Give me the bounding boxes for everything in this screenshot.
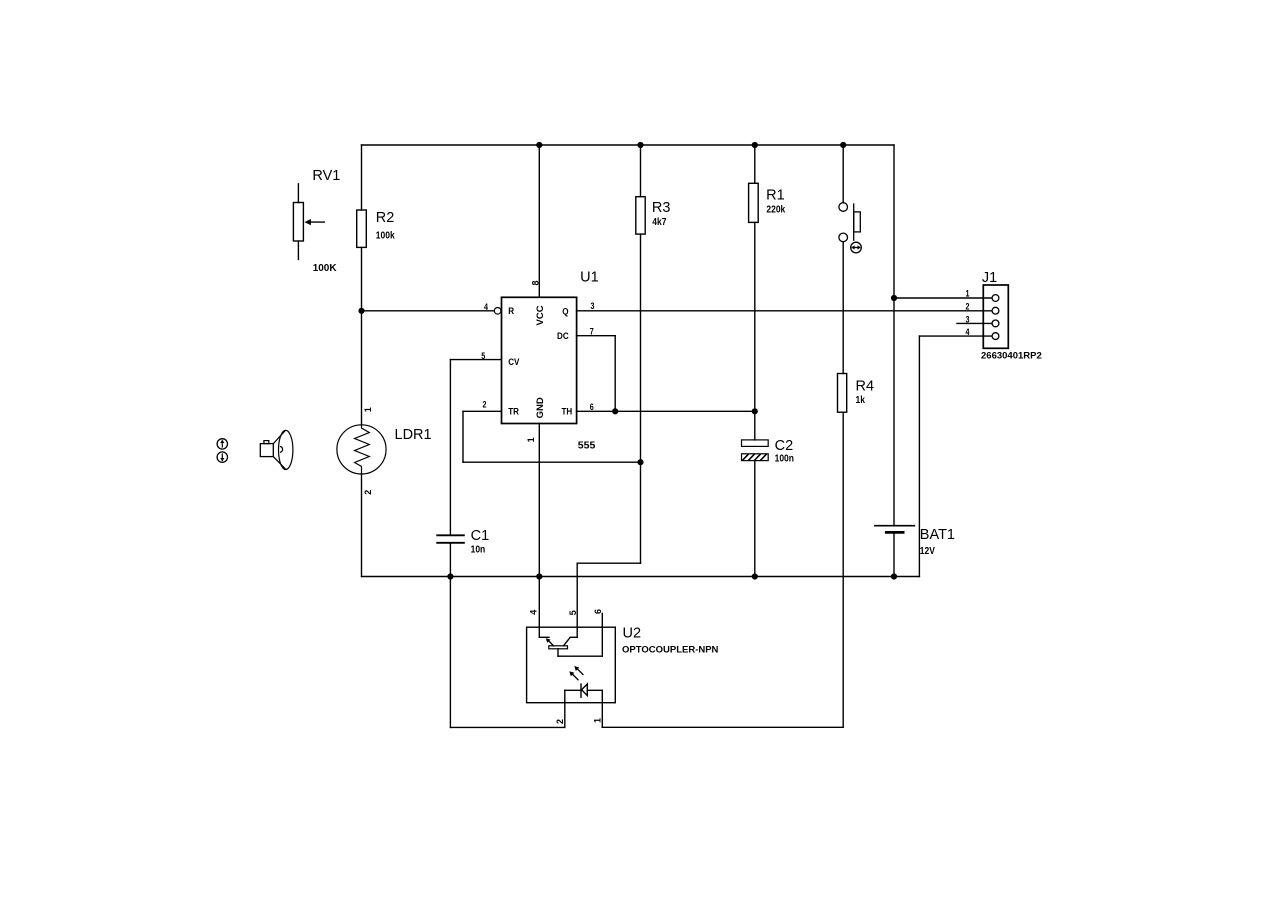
svg-text:LDR1: LDR1	[395, 427, 432, 443]
svg-text:RV1: RV1	[312, 168, 340, 184]
svg-text:4k7: 4k7	[652, 216, 666, 227]
svg-text:1k: 1k	[856, 394, 866, 405]
svg-text:3: 3	[965, 315, 969, 325]
svg-text:2: 2	[482, 400, 486, 410]
svg-text:10n: 10n	[471, 544, 486, 555]
svg-text:555: 555	[578, 439, 596, 451]
svg-text:OPTOCOUPLER-NPN: OPTOCOUPLER-NPN	[622, 645, 719, 656]
svg-text:R: R	[508, 306, 514, 317]
svg-text:4: 4	[529, 610, 539, 615]
svg-text:1: 1	[526, 437, 536, 442]
svg-text:4: 4	[965, 327, 969, 337]
svg-text:220k: 220k	[766, 204, 786, 215]
svg-text:1: 1	[363, 407, 373, 412]
svg-text:R3: R3	[652, 200, 671, 216]
svg-text:6: 6	[593, 609, 603, 614]
svg-text:J1: J1	[982, 270, 997, 286]
svg-text:TR: TR	[508, 406, 519, 417]
svg-text:DC: DC	[557, 330, 569, 341]
svg-text:1: 1	[965, 289, 969, 299]
svg-text:3: 3	[591, 301, 595, 311]
svg-text:BAT1: BAT1	[920, 527, 955, 543]
svg-text:TH: TH	[562, 406, 573, 417]
svg-text:R1: R1	[766, 187, 785, 203]
svg-text:C1: C1	[471, 528, 490, 544]
svg-text:2: 2	[363, 490, 373, 495]
svg-text:100K: 100K	[313, 263, 338, 274]
svg-text:2: 2	[965, 302, 969, 312]
svg-text:5: 5	[481, 351, 485, 361]
svg-text:1: 1	[592, 718, 602, 723]
svg-text:R4: R4	[856, 379, 875, 395]
svg-text:2: 2	[555, 719, 565, 724]
svg-text:12V: 12V	[920, 545, 936, 556]
svg-text:CV: CV	[508, 356, 519, 367]
svg-text:8: 8	[530, 280, 540, 285]
svg-text:U2: U2	[623, 626, 642, 642]
svg-text:26630401RP2: 26630401RP2	[981, 351, 1042, 362]
svg-text:100k: 100k	[376, 230, 396, 241]
svg-text:6: 6	[590, 402, 594, 412]
svg-text:R2: R2	[376, 210, 395, 226]
svg-text:5: 5	[568, 610, 578, 615]
svg-text:VCC: VCC	[535, 305, 546, 325]
svg-text:4: 4	[484, 302, 488, 312]
svg-text:C2: C2	[775, 438, 794, 454]
svg-text:100n: 100n	[775, 453, 795, 464]
svg-text:Q: Q	[562, 306, 568, 317]
svg-text:U1: U1	[580, 270, 599, 286]
svg-text:7: 7	[590, 327, 594, 337]
svg-text:GND: GND	[535, 397, 546, 418]
